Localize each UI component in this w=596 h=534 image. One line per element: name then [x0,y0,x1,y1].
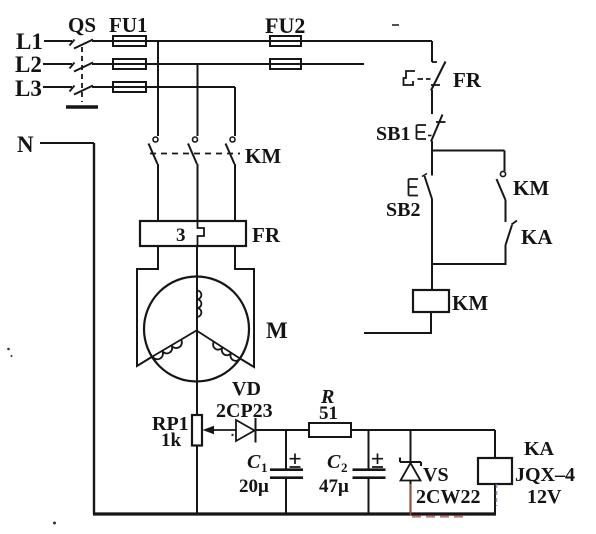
wire bottom rail [93,512,496,515]
motor M body circle [144,277,249,382]
wire SB1 to node A [431,141,433,151]
fuse FU2 pole 1 [270,36,301,46]
thermal contact FR symbol [404,62,446,91]
switch QS pole 3 [70,86,94,95]
svg-text:2CP23: 2CP23 [216,400,273,422]
wire node A branch [432,150,505,152]
pushbutton SB1 symbol [417,115,446,142]
stray mark dash top [392,24,399,26]
svg-text:FU2: FU2 [265,13,305,38]
coil KM body [413,290,449,312]
svg-text:SB1: SB1 [376,123,410,145]
svg-text:KM: KM [245,144,281,168]
wire L1 in [44,40,72,42]
motor M winding lower-right [197,331,241,361]
svg-text:2: 2 [341,460,348,475]
capacitor C1 symbol [270,430,303,514]
wire control right feed [431,41,433,62]
wire L2 in [43,63,72,65]
svg-text:FR: FR [252,223,281,247]
svg-text:L2: L2 [15,52,42,77]
svg-text:20μ: 20μ [239,476,269,497]
wire FR to motor left phase [137,246,158,366]
wire KM aux to KA aux [505,200,507,222]
wire DC bus [256,429,496,431]
svg-text:KA: KA [521,225,553,249]
wire L1 drop to KM [157,41,159,136]
relay coil KA body [478,458,512,484]
potentiometer RP1 wiper arrow [203,426,237,434]
contactor KM main pole 1 [149,137,159,221]
resistor R body [309,423,351,437]
watermark blue dashes [496,484,498,506]
watermark red dashes [412,515,468,517]
svg-text:1: 1 [261,460,268,475]
contactor KM main pole 2 [188,137,198,221]
switch QS handle bar [66,105,98,109]
svg-text:FU1: FU1 [109,13,148,37]
wire L3 after QS [92,86,235,88]
svg-text:47μ: 47μ [319,476,349,497]
svg-text:L1: L1 [16,29,43,54]
svg-text:3: 3 [176,225,186,246]
pushbutton SB2 symbol [409,174,433,200]
capacitor C1 label [247,451,268,475]
svg-text:2CW22: 2CW22 [416,486,480,508]
switch QS pole 1 [70,40,94,49]
fuse FU1 pole 3 [113,82,146,92]
wire coil KM return [364,312,431,333]
wire SB2 to node B [431,199,433,264]
switch QS pole 2 [70,63,94,72]
fuse FU1 pole 2 [113,59,146,69]
capacitor C2 polarity mark [372,454,383,468]
contactor KM main pole 3 [226,137,236,221]
motor M winding top [197,291,201,317]
svg-text:C: C [327,451,341,473]
svg-text:1k: 1k [161,430,182,451]
svg-text:L3: L3 [15,76,42,101]
thermal relay FR heater box [140,221,246,246]
wire FR to SB1 [431,90,433,114]
capacitor C1 polarity mark [290,454,301,468]
wire N horizontal [40,142,94,144]
contact KM aux symbol [497,151,506,201]
diode VD symbol [236,418,256,443]
wire L2 drop to KM [197,64,199,136]
wire FR to motor right phase [235,246,254,367]
svg-text:JQX–4: JQX–4 [515,464,575,486]
wire N left rail [93,143,95,514]
wire L3 in [43,86,72,88]
potentiometer RP1 body [192,415,202,446]
svg-text:QS: QS [68,13,96,37]
wire FR to motor middle phase [196,246,198,415]
stray mark dots left [7,348,234,525]
potentiometer RP1 lower lead [196,446,198,515]
relay coil KA lower lead [494,484,496,514]
wire KA aux to node B [432,245,506,264]
relay coil KA feed wire [494,430,496,458]
svg-text:VS: VS [423,464,449,486]
motor M winding lower-left [153,331,197,360]
svg-text:C: C [247,451,261,473]
switch QS linkage dashed [81,47,83,102]
wire L1 after QS [92,40,432,42]
contact KA aux symbol [506,221,518,246]
svg-text:51: 51 [319,403,338,424]
wire node B to coil [431,264,433,290]
fuse FU1 pole 1 [113,36,146,46]
svg-text:KA: KA [524,438,555,460]
wire node A to SB2 [431,150,433,176]
svg-text:M: M [266,318,288,343]
svg-text:N: N [17,132,34,157]
svg-text:KM: KM [452,291,488,315]
wire L3 drop to KM [234,87,236,136]
svg-text:KM: KM [513,176,549,200]
svg-text:12V: 12V [527,486,562,508]
capacitor C2 label [327,451,348,475]
watermark red line [410,484,412,516]
contactor KM linkage dashed [150,153,240,155]
svg-text:VD: VD [232,378,261,400]
wire L2 after QS [92,63,364,65]
thermal relay FR heater element [198,221,205,246]
capacitor C2 symbol [353,430,386,514]
svg-text:FR: FR [453,68,482,92]
svg-text:SB2: SB2 [386,199,420,221]
fuse FU2 pole 2 [270,59,301,69]
zener VS symbol [400,430,421,514]
